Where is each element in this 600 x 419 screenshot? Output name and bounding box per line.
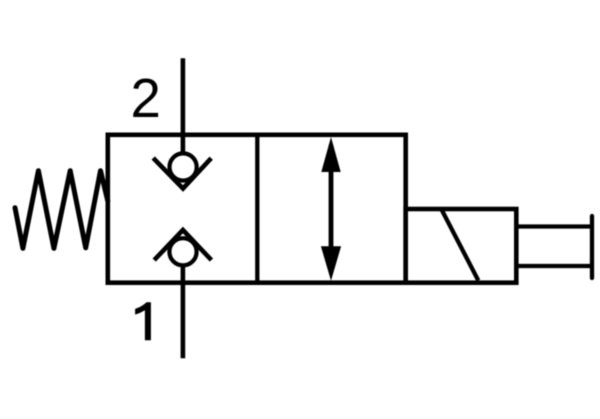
solenoid lower lead [516,264,592,268]
return spring [15,171,108,249]
solenoid box [406,209,517,283]
solenoid upper lead [516,224,592,228]
port 1 line [181,265,186,359]
check valve top: seat V [153,158,211,189]
position divider line [255,135,259,283]
check valve bottom: seat V [154,230,211,260]
port label 1 [135,302,151,340]
solenoid coil diagonal [442,210,479,281]
port 2 line [181,58,186,155]
check valve bottom: poppet ball circle [169,238,196,265]
check valve top: poppet ball circle [170,153,197,180]
flow arrow head down [321,246,341,280]
svg-text:2: 2 [131,68,161,129]
valve body (2-position envelope) [108,135,406,283]
flow arrow head up [321,137,340,172]
solenoid end bar [590,216,594,278]
flow arrow shaft [329,145,334,272]
